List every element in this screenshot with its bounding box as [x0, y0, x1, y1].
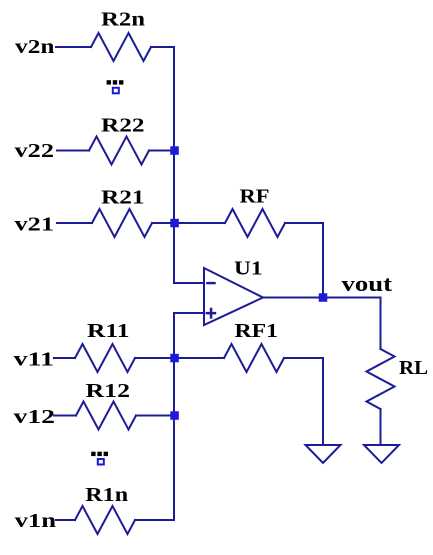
svg-text:U1: U1 [234, 258, 263, 280]
svg-text:vout: vout [342, 271, 393, 296]
resistor RL [367, 349, 395, 409]
wire bus to RF [174, 222, 225, 224]
wire RF1 to ground [284, 358, 323, 445]
port square top [113, 88, 119, 94]
svg-text:R21: R21 [101, 187, 145, 209]
wire v21 lead [57, 222, 92, 224]
wire v2n lead [56, 46, 91, 48]
wire R2n to bus corner [151, 46, 174, 48]
op-amp plus pin [206, 308, 217, 319]
wire v1n lead [56, 519, 75, 521]
svg-text:R22: R22 [101, 115, 145, 137]
wire RL to ground [380, 409, 382, 445]
svg-text:R1n: R1n [85, 484, 128, 506]
svg-text:RL: RL [399, 357, 428, 379]
svg-text:v22: v22 [15, 140, 55, 162]
wire R22 to bus [149, 150, 174, 152]
svg-text:v1n: v1n [15, 510, 57, 532]
wire v12 lead [54, 415, 76, 417]
wire v22 lead [57, 150, 89, 152]
ellipsis dots bottom [91, 452, 108, 456]
svg-text:v11: v11 [14, 349, 55, 371]
op-amp minus pin [206, 282, 216, 284]
wire v11 lead [54, 357, 75, 359]
svg-text:R2n: R2n [101, 9, 145, 31]
ground RF1 [306, 445, 341, 463]
svg-text:RF1: RF1 [235, 320, 279, 342]
svg-text:R11: R11 [87, 320, 130, 342]
svg-text:R12: R12 [86, 380, 131, 402]
op-amp U1 [204, 268, 263, 325]
wire R12 to bus [136, 415, 174, 417]
wire R11 to bus [135, 357, 174, 359]
resistor RF [225, 209, 285, 237]
wire R1n to bus [135, 519, 174, 521]
ground RL [364, 445, 399, 463]
resistor R2n [91, 33, 151, 61]
junction node v11 [170, 354, 179, 363]
wire noninverting stub [174, 313, 204, 520]
junction node v21/RF [170, 219, 179, 228]
junction node v12 [170, 411, 179, 420]
wire RF to output [285, 223, 323, 298]
port square bottom [98, 459, 104, 465]
ellipsis dots top [107, 80, 124, 84]
junction node v22 [170, 146, 179, 155]
svg-text:v12: v12 [14, 406, 56, 428]
svg-text:v21: v21 [15, 214, 55, 236]
resistor RF1 [224, 344, 284, 372]
resistor R12 [76, 402, 136, 430]
wire inverting bus vertical [174, 47, 204, 283]
wire bus to RF1 [174, 357, 224, 359]
svg-text:RF: RF [240, 186, 270, 208]
wire R21 to bus [152, 222, 174, 224]
junction node vout [319, 293, 328, 302]
svg-text:v2n: v2n [15, 36, 55, 58]
resistor R1n [75, 506, 135, 534]
resistor R21 [92, 209, 152, 237]
resistor R11 [75, 344, 135, 372]
wire output [263, 297, 381, 299]
resistor R22 [89, 137, 149, 165]
wire vout to RL [380, 298, 382, 350]
